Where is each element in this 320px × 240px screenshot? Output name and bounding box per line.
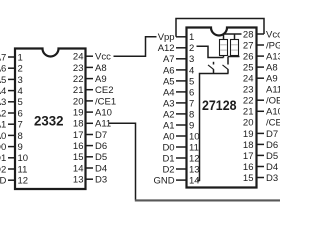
switch S1 (A12 to GND), open bbox=[208, 62, 214, 74]
node A13: wire from R2 bottom to pin 26 bbox=[228, 56, 240, 58]
2332 pin 17 D7 (right) bbox=[73, 130, 107, 141]
27128 pin 27 /PGM (right, label cut by image edge) bbox=[243, 40, 290, 51]
Vcc rail inside 27128 (pin28 to resistor tops) bbox=[224, 33, 242, 35]
resistor R2 (pull-up on A13) bbox=[231, 34, 239, 57]
svg-text:GND: GND bbox=[0, 176, 6, 187]
27128 pin 12 D1 (left) bbox=[162, 153, 199, 164]
27128 pin 13 D2 (left) bbox=[162, 164, 199, 175]
svg-text:18: 18 bbox=[73, 119, 84, 130]
svg-text:Vcc: Vcc bbox=[95, 52, 111, 63]
svg-text:A9: A9 bbox=[95, 74, 107, 85]
svg-text:6: 6 bbox=[189, 87, 194, 98]
svg-text:GND: GND bbox=[153, 175, 174, 186]
svg-text:3: 3 bbox=[189, 54, 194, 65]
svg-text:A3: A3 bbox=[163, 98, 175, 109]
svg-text:A5: A5 bbox=[163, 76, 175, 87]
27128 pin 18 D6 (right, label cut by image edge) bbox=[243, 140, 278, 151]
2332 pin 21 CE2 (right) bbox=[73, 85, 114, 96]
svg-text:/CE: /CE bbox=[266, 118, 280, 129]
svg-text:A8: A8 bbox=[266, 63, 278, 74]
wire: 27128 pin2 A12 internal to switch S1 node bbox=[197, 46, 224, 57]
27128 pin 2 A12 (left) bbox=[158, 43, 195, 54]
svg-text:D1: D1 bbox=[162, 153, 174, 164]
svg-text:A4: A4 bbox=[0, 86, 6, 97]
svg-text:11: 11 bbox=[18, 164, 28, 175]
svg-text:22: 22 bbox=[73, 74, 84, 85]
svg-text:15: 15 bbox=[243, 173, 254, 184]
27128 pin 24 A9 (right, label cut by image edge) bbox=[243, 74, 278, 85]
svg-text:Vcc: Vcc bbox=[266, 29, 280, 40]
2332 pin 12 GND (left, label cut by image edge) bbox=[0, 176, 28, 187]
27128 pin 21 A10 (right, label cut by image edge) bbox=[243, 107, 283, 118]
27128 pin 6 A4 (left) bbox=[163, 87, 194, 98]
svg-text:2: 2 bbox=[18, 64, 23, 75]
svg-text:A8: A8 bbox=[95, 63, 107, 74]
svg-text:4: 4 bbox=[189, 65, 194, 76]
svg-text:D6: D6 bbox=[266, 140, 278, 151]
svg-text:A4: A4 bbox=[163, 87, 175, 98]
svg-text:10: 10 bbox=[18, 153, 29, 164]
svg-text:26: 26 bbox=[243, 51, 254, 62]
2332 pin 23 A8 (right) bbox=[73, 63, 107, 74]
svg-text:D4: D4 bbox=[95, 163, 107, 174]
svg-text:1: 1 bbox=[18, 52, 23, 63]
svg-text:CE2: CE2 bbox=[95, 85, 113, 96]
svg-text:16: 16 bbox=[243, 162, 254, 173]
27128 pin 10 A0 (left) bbox=[163, 131, 200, 142]
svg-text:20: 20 bbox=[73, 96, 84, 107]
svg-text:D2: D2 bbox=[0, 164, 6, 175]
svg-text:18: 18 bbox=[243, 140, 254, 151]
svg-text:A5: A5 bbox=[0, 75, 6, 86]
2332 pin 11 D2 (left, label cut by image edge) bbox=[0, 164, 27, 175]
svg-text:21: 21 bbox=[243, 107, 254, 118]
switch S2 (A13 to GND), open bbox=[223, 57, 229, 74]
svg-text:D3: D3 bbox=[95, 175, 107, 186]
2332 pin 15 D5 (right) bbox=[73, 152, 107, 163]
svg-text:D0: D0 bbox=[162, 142, 174, 153]
svg-text:D0: D0 bbox=[0, 142, 6, 153]
svg-text:11: 11 bbox=[189, 142, 199, 153]
2332 pin 13 D3 (right) bbox=[73, 175, 107, 186]
svg-text:16: 16 bbox=[73, 141, 84, 152]
svg-text:28: 28 bbox=[243, 29, 254, 40]
27128 pin 5 A5 (left) bbox=[163, 76, 194, 87]
svg-text:Vpp: Vpp bbox=[158, 32, 175, 43]
svg-text:D3: D3 bbox=[266, 173, 278, 184]
2332 pin 9 D0 (left, label cut by image edge) bbox=[0, 142, 23, 153]
svg-text:/OE: /OE bbox=[266, 96, 280, 107]
svg-text:A3: A3 bbox=[0, 97, 6, 108]
IC U1 2332 body with pin-1 notch bbox=[15, 49, 86, 190]
svg-text:7: 7 bbox=[18, 120, 23, 131]
svg-text:7: 7 bbox=[189, 98, 194, 109]
svg-text:A7: A7 bbox=[163, 54, 175, 65]
svg-text:D7: D7 bbox=[266, 129, 278, 140]
27128 pin 7 A3 (left) bbox=[163, 98, 194, 109]
svg-text:13: 13 bbox=[73, 175, 84, 186]
svg-text:A7: A7 bbox=[0, 52, 6, 63]
wire: 2332 A11 (pin18) down and along bottom to right edge (to 27128 A11) bbox=[109, 123, 136, 200]
svg-text:D5: D5 bbox=[95, 152, 107, 163]
2332 pin 20 /CE1 (right) bbox=[73, 96, 116, 107]
svg-text:5: 5 bbox=[18, 97, 23, 108]
svg-text:15: 15 bbox=[73, 152, 84, 163]
resistor R1 (pull-up on A12) bbox=[220, 34, 228, 58]
27128 pin 19 D7 (right, label cut by image edge) bbox=[243, 129, 278, 140]
wire: 27128 pin1 Vpp up and over to pin28 Vcc (top rail) bbox=[176, 19, 264, 37]
2332 pin 4 A4 (left, label cut by image edge) bbox=[0, 86, 23, 97]
27128 pin 23 A11 (right, label cut by image edge) bbox=[243, 85, 282, 96]
2332 pin 5 A3 (left, label cut by image edge) bbox=[0, 97, 23, 108]
svg-text:A1: A1 bbox=[163, 120, 175, 131]
27128 pin 22 /OE (right, label cut by image edge) bbox=[243, 96, 282, 107]
GND rail: switches to 27128 pin14 GND bbox=[197, 74, 228, 181]
svg-text:D5: D5 bbox=[266, 151, 278, 162]
27128 pin 4 A6 (left) bbox=[163, 65, 194, 76]
svg-text:24: 24 bbox=[73, 52, 84, 63]
2332 pin 16 D6 (right) bbox=[73, 141, 107, 152]
svg-text:12: 12 bbox=[18, 176, 29, 187]
svg-text:D4: D4 bbox=[266, 162, 278, 173]
svg-text:22: 22 bbox=[243, 96, 254, 107]
wire: bottom A11 run to right image edge (softer gray as in source) bbox=[135, 199, 280, 201]
27128 pin 15 D3 (right, label cut by image edge) bbox=[243, 173, 278, 184]
svg-text:6: 6 bbox=[18, 108, 23, 119]
svg-text:17: 17 bbox=[243, 151, 254, 162]
svg-text:D7: D7 bbox=[95, 130, 107, 141]
svg-text:A1: A1 bbox=[0, 120, 6, 131]
svg-text:10: 10 bbox=[189, 131, 200, 142]
svg-text:27: 27 bbox=[243, 40, 254, 51]
svg-text:5: 5 bbox=[189, 76, 194, 87]
svg-text:9: 9 bbox=[189, 120, 194, 131]
27128 pin 14 GND (left) bbox=[153, 175, 199, 186]
svg-text:12: 12 bbox=[189, 153, 200, 164]
IC U2 27128 body with pin-1 notch bbox=[187, 28, 257, 188]
27128 pin 25 A8 (right, label cut by image edge) bbox=[243, 63, 278, 74]
svg-text:A6: A6 bbox=[163, 65, 175, 76]
2332 pin 1 A7 (left, label cut by image edge) bbox=[0, 52, 23, 63]
svg-text:20: 20 bbox=[243, 118, 254, 129]
svg-text:A12: A12 bbox=[158, 43, 175, 54]
svg-text:A11: A11 bbox=[266, 85, 280, 96]
svg-text:D2: D2 bbox=[162, 164, 174, 175]
2332 pin 2 A6 (left, label cut by image edge) bbox=[0, 64, 23, 75]
27128 pin 8 A2 (left) bbox=[163, 109, 194, 120]
svg-text:19: 19 bbox=[73, 108, 84, 119]
svg-text:A0: A0 bbox=[163, 131, 175, 142]
2332 pin 18 A11 (right) bbox=[73, 119, 111, 130]
27128 pin 20 /CE (right, label cut by image edge) bbox=[243, 118, 282, 129]
svg-text:13: 13 bbox=[189, 164, 200, 175]
svg-text:23: 23 bbox=[73, 63, 84, 74]
svg-text:/PGM: /PGM bbox=[266, 40, 280, 51]
svg-text:A2: A2 bbox=[0, 108, 6, 119]
27128 pin 28 Vcc (right, label cut by image edge) bbox=[243, 29, 282, 40]
svg-text:17: 17 bbox=[73, 130, 84, 141]
27128 pin 9 A1 (left) bbox=[163, 120, 194, 131]
svg-text:4: 4 bbox=[18, 86, 23, 97]
svg-text:A6: A6 bbox=[0, 64, 6, 75]
svg-text:A13: A13 bbox=[266, 51, 280, 62]
svg-text:3: 3 bbox=[18, 75, 23, 86]
svg-text:A11: A11 bbox=[95, 119, 111, 130]
svg-text:D1: D1 bbox=[0, 153, 6, 164]
wire: 2332 Vcc (pin24) to 27128 Vpp (pin1) bbox=[114, 37, 157, 56]
2332 pin 14 D4 (right) bbox=[73, 163, 107, 174]
svg-text:/CE1: /CE1 bbox=[95, 96, 116, 107]
27128 pin 26 A13 (right, label cut by image edge) bbox=[243, 51, 283, 62]
2332 pin 22 A9 (right) bbox=[73, 74, 107, 85]
2332 pin 3 A5 (left, label cut by image edge) bbox=[0, 75, 23, 86]
27128 pin 11 D0 (left) bbox=[162, 142, 198, 153]
27128 pin 17 D5 (right, label cut by image edge) bbox=[243, 151, 278, 162]
2332 pin 7 A1 (left, label cut by image edge) bbox=[0, 120, 23, 131]
svg-text:2332: 2332 bbox=[34, 113, 64, 129]
svg-text:A9: A9 bbox=[266, 74, 278, 85]
svg-text:2: 2 bbox=[189, 43, 194, 54]
27128 pin 3 A7 (left) bbox=[163, 54, 194, 65]
2332 pin 19 A10 (right) bbox=[73, 108, 112, 119]
svg-text:19: 19 bbox=[243, 129, 254, 140]
svg-text:D6: D6 bbox=[95, 141, 107, 152]
svg-text:27128: 27128 bbox=[202, 97, 237, 113]
svg-text:9: 9 bbox=[18, 142, 23, 153]
2332 pin 8 A0 (left, label cut by image edge) bbox=[0, 131, 23, 142]
svg-text:A10: A10 bbox=[95, 108, 112, 119]
2332 pin 10 D1 (left, label cut by image edge) bbox=[0, 153, 28, 164]
svg-text:A2: A2 bbox=[163, 109, 175, 120]
2332 pin 24 Vcc (right) bbox=[73, 52, 111, 63]
2332 pin 6 A2 (left, label cut by image edge) bbox=[0, 108, 23, 119]
svg-text:1: 1 bbox=[189, 32, 194, 43]
svg-text:24: 24 bbox=[243, 74, 254, 85]
27128 pin 1 Vpp (left) bbox=[158, 32, 195, 43]
svg-text:25: 25 bbox=[243, 63, 254, 74]
svg-text:14: 14 bbox=[73, 163, 84, 174]
svg-text:A10: A10 bbox=[266, 107, 280, 118]
svg-text:21: 21 bbox=[73, 85, 84, 96]
svg-text:23: 23 bbox=[243, 85, 254, 96]
svg-text:8: 8 bbox=[189, 109, 194, 120]
svg-text:8: 8 bbox=[18, 131, 23, 142]
27128 pin 16 D4 (right, label cut by image edge) bbox=[243, 162, 278, 173]
svg-text:A0: A0 bbox=[0, 131, 6, 142]
